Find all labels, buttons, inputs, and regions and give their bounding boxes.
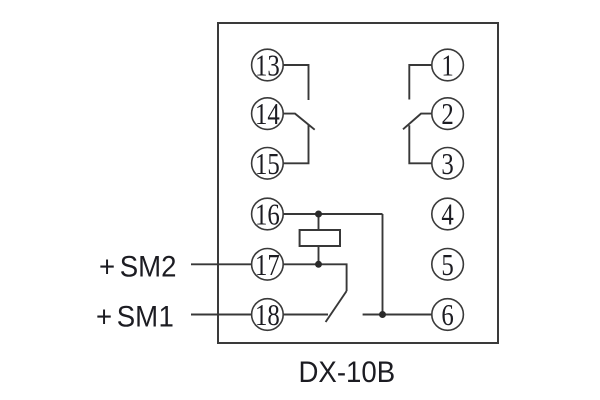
svg-text:13: 13 <box>255 49 280 83</box>
svg-text:2: 2 <box>441 98 453 132</box>
svg-text:+SM2: +SM2 <box>99 250 176 283</box>
svg-text:6: 6 <box>441 298 453 332</box>
svg-text:18: 18 <box>255 298 280 332</box>
svg-text:1: 1 <box>441 49 453 83</box>
svg-text:3: 3 <box>441 147 453 181</box>
svg-text:15: 15 <box>255 147 280 181</box>
svg-text:+SM1: +SM1 <box>96 300 174 333</box>
svg-text:14: 14 <box>255 98 280 132</box>
svg-text:17: 17 <box>255 248 280 282</box>
svg-text:DX-10B: DX-10B <box>299 356 396 389</box>
svg-text:5: 5 <box>441 248 453 282</box>
svg-text:16: 16 <box>255 198 280 232</box>
svg-text:4: 4 <box>441 198 453 232</box>
